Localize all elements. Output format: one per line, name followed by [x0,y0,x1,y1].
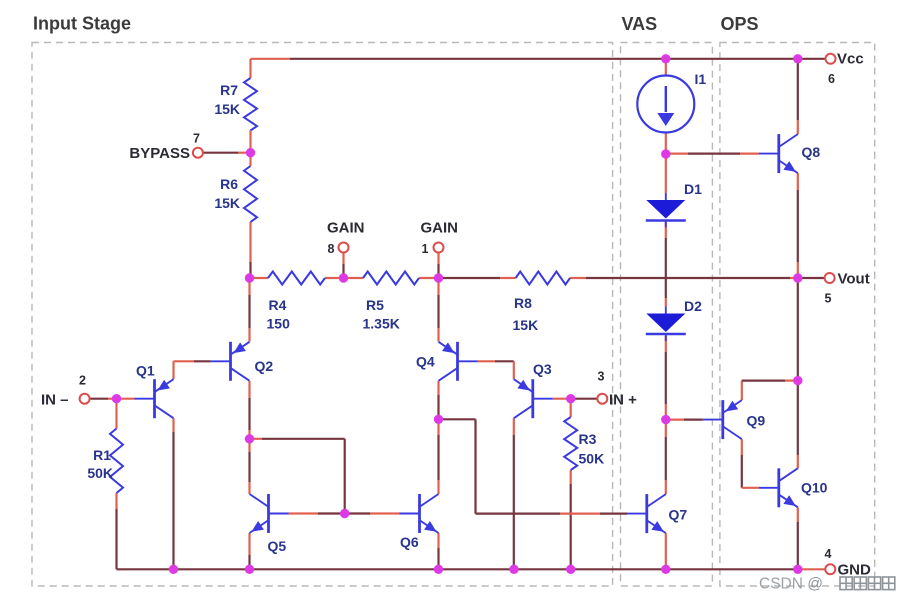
wire node A to R4 [250,277,269,279]
transistor Q1 (PNP) [135,379,174,418]
wire I1 top lead [665,59,667,76]
wire R8 to Vout node [570,277,798,279]
svg-text:GAIN: GAIN [421,220,459,237]
pin terminal Vout pin 5 [825,273,835,283]
wire D1 to crossing to D2 [665,222,667,307]
wire R4 to GAIN8 node [325,277,344,279]
wire Q9 emitter path [742,381,798,401]
svg-text:5: 5 [825,292,832,306]
junction bus Q5 [245,565,254,574]
wire R5 to GAIN1 node [419,277,439,279]
pin terminal Vcc pin 6 [826,54,836,64]
wire Vcc column to Q8 collector [797,59,799,134]
svg-text:BYPASS: BYPASS [129,145,190,162]
junction base bus node [340,509,349,518]
diode D2 [646,307,686,342]
wire top supply bus [251,58,826,60]
wire ground bus [117,568,825,570]
wire Q2 collector down [248,381,250,439]
wire Q9 emitter node to Q10 collector [797,381,799,469]
wire R3 top lead [570,399,572,417]
svg-text:IN –: IN – [41,392,69,409]
svg-text:6: 6 [828,72,835,86]
wire mirror node down to Q5 collector [248,439,250,494]
transistor Q4 (PNP) [439,342,478,381]
svg-text:1.35K: 1.35K [363,316,400,332]
svg-text:OPS: OPS [721,14,759,34]
wire Q4 emitter to GAIN1 node [437,278,439,342]
junction GAIN8 node [339,273,348,282]
wire Q9 base node to Q7 collector [665,420,667,495]
wire Q4 node to Q6 collector [437,419,439,494]
wire R6 top lead [249,153,251,166]
junction Q4 collector node [434,415,443,424]
junction bus Q6 [434,565,443,574]
svg-text:150: 150 [267,316,291,332]
svg-text:Q4: Q4 [416,354,435,370]
svg-text:R8: R8 [514,295,532,311]
junction bus Q1 [169,565,178,574]
resistor R3 50K [564,417,577,470]
wire R3 bottom to ground bus [570,470,572,569]
svg-text:D2: D2 [684,298,702,314]
transistor Q9 (PNP) [703,400,742,439]
svg-text:Q8: Q8 [802,144,821,160]
wire Vout node down [797,278,799,381]
resistor R1 50K [110,429,123,494]
svg-text:R4: R4 [269,297,287,313]
junction Q9 base node [661,415,670,424]
junction VAS I1/D1 node [661,149,670,158]
svg-text:Q1: Q1 [136,363,155,379]
svg-text:R6: R6 [220,176,238,192]
junction node R4 left [245,273,254,282]
wire Q6 emitter to ground bus [437,533,439,569]
junction Vcc bus [793,54,802,63]
wire Q4 node link to Q7 base [439,419,476,513]
wire R7 bottom to BYPASS node [249,131,251,153]
wire D2 to Q9 base node [665,336,667,420]
wire Q5 emitter to ground bus [248,533,250,569]
junction bus Q7 [661,565,670,574]
wire Q1 collector to ground bus [172,418,174,569]
junction Vout node [793,273,802,282]
svg-text:15K: 15K [214,101,240,117]
pin terminal GND pin 4 [825,564,835,574]
svg-text:4: 4 [825,547,832,561]
svg-text:7: 7 [193,132,200,146]
svg-text:R7: R7 [220,82,238,98]
wire IN- pin to node [89,398,116,400]
resistor R4 150 [268,272,325,285]
svg-text:CSDN @: CSDN @ [759,576,823,593]
wire BYPASS pin to node [203,152,251,154]
wire I1 bottom to VAS node [665,133,667,155]
svg-text:50K: 50K [579,451,605,467]
transistor Q6 (NPN) [400,494,439,533]
junction bus R3 [566,565,575,574]
wire Q7 base wire [476,512,628,514]
svg-text:Q3: Q3 [533,361,552,377]
wire Q4 collector down [437,381,439,419]
svg-text:Vout: Vout [838,271,870,288]
svg-text:Q6: Q6 [400,534,419,550]
resistor R7 15K [244,78,257,131]
junction Q9 emitter node [793,376,802,385]
svg-text:VAS: VAS [622,14,658,34]
transistor Q10 (NPN) [759,468,798,507]
svg-text:Q2: Q2 [255,358,274,374]
svg-text:D1: D1 [684,181,702,197]
wire Q9 base node to Q9 [666,419,703,421]
wire R1 bottom to ground bus [115,493,117,569]
wire GAIN8 stub [342,253,344,279]
wire Q8 emitter to Vout node [797,173,799,278]
Input Stage boundary box [32,43,613,587]
wire GAIN1 node to R8 [439,277,516,279]
svg-text:IN +: IN + [609,392,637,409]
watermark CSDN [759,576,895,593]
junction IN+ node [566,394,575,403]
wire Q9 collector to Q10 base [742,439,759,488]
wire Q5-Q6 base bus [289,512,400,514]
junction GAIN1 node [434,273,443,282]
resistor R8 15K [516,272,570,285]
resistor R6 15K [244,166,257,222]
svg-text:15K: 15K [214,195,240,211]
junction IN- node [112,394,121,403]
wire IN+ node to pin 3 [571,398,598,400]
svg-text:15K: 15K [513,317,539,333]
transistor Q7 (NPN) [627,494,666,533]
svg-text:GND: GND [838,562,872,579]
pin terminal GAIN pin 8 [339,243,349,253]
svg-text:8: 8 [328,242,335,256]
svg-text:R1: R1 [93,447,111,463]
junction bus Q10 [793,565,802,574]
wire Q1 emitter to Q2 base [174,361,211,379]
svg-text:I1: I1 [695,71,707,87]
transistor Q3 (PNP) [514,379,553,418]
wire Q3 base to IN+ node [553,398,571,400]
svg-text:Q5: Q5 [268,538,287,554]
transistor Q8 (NPN) [759,134,798,173]
wire IN- node to Q1 base [117,398,135,400]
svg-text:2: 2 [79,374,86,388]
wire Vout node to pin 5 [798,277,825,279]
svg-text:3: 3 [598,370,605,384]
wire Q10 emitter to ground bus [797,508,799,570]
transistor Q5 (NPN) [250,494,289,533]
svg-text:Q10: Q10 [801,480,828,496]
svg-text:Q9: Q9 [747,413,766,429]
transistor Q2 (PNP) [211,342,250,381]
wire R6 bottom to node [249,222,251,278]
diode D1 [646,193,686,228]
svg-text:R5: R5 [366,297,384,313]
wire Q3 collector to ground bus [513,418,515,569]
wire R7 top lead [249,59,251,78]
wire Q4 base to Q3 emitter [478,361,514,379]
svg-text:Q7: Q7 [669,507,688,523]
wire Q7 emitter to ground bus [665,533,667,569]
svg-text:Input Stage: Input Stage [33,14,131,34]
junction bus Q3 [509,565,518,574]
pin terminal GAIN pin 1 [434,243,444,253]
junction mirror node left [245,434,254,443]
VAS boundary box [621,43,713,587]
svg-text:50K: 50K [87,465,113,481]
svg-text:Vcc: Vcc [837,51,864,68]
current source I1 [637,76,694,133]
OPS boundary box [720,43,875,587]
svg-text:R3: R3 [579,431,597,447]
pin terminal BYPASS pin 7 [193,148,203,158]
junction BYPASS node [246,148,255,157]
wire mirror link horizontal [250,438,345,440]
wire R1 top lead [115,399,117,429]
resistor R5 1.35K [363,272,419,285]
wire VAS node to Q8 base [666,153,759,155]
pin terminal IN+ pin 3 [597,394,607,404]
junction I1 top bus [661,54,670,63]
wire VAS node to D1 [665,154,667,193]
wire GAIN8 node to R5 [344,277,364,279]
wire GAIN1 stub [437,253,439,279]
wire Q2 emitter to node A [248,278,250,342]
svg-text:1: 1 [422,242,429,256]
svg-text:GAIN: GAIN [327,220,365,237]
pin terminal IN- pin 2 [80,394,90,404]
wire mirror link vertical [344,439,346,514]
